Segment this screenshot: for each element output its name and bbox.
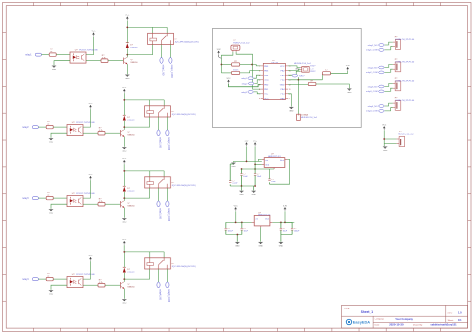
svg-text:PC817-TLP521GB: PC817-TLP521GB <box>79 49 98 51</box>
svg-text:VCC: VCC <box>122 87 127 89</box>
svg-text:Vin: Vin <box>265 160 268 162</box>
svg-text:VCC: VCC <box>89 174 94 176</box>
svg-text:1: 1 <box>259 66 260 68</box>
svg-text:CONN-TH_2P-P5.40: CONN-TH_2P-P5.40 <box>395 61 415 63</box>
svg-text:8: 8 <box>259 98 260 100</box>
svg-text:EasyEDA: EasyEDA <box>353 320 370 325</box>
svg-text:C?: C? <box>232 181 234 183</box>
svg-text:VCC: VCC <box>234 205 239 207</box>
svg-text:1/1: 1/1 <box>458 319 462 322</box>
svg-text:GND: GND <box>231 166 236 168</box>
svg-text:Your Company: Your Company <box>395 318 413 321</box>
svg-text:VCC: VCC <box>264 98 269 100</box>
svg-text:11: 11 <box>289 89 291 91</box>
svg-text:GND: GND <box>122 222 127 224</box>
svg-text:RXD?: RXD? <box>310 71 316 73</box>
svg-text:1k: 1k <box>50 51 52 53</box>
svg-text:C?: C? <box>271 179 273 181</box>
svg-text:GND: GND <box>289 110 294 112</box>
svg-text:SS8050: SS8050 <box>127 134 135 136</box>
svg-text:GND: GND <box>125 78 130 80</box>
svg-text:PC817-TLP521GB: PC817-TLP521GB <box>76 122 95 124</box>
svg-text:CONN-TH_2P-P5.40: CONN-TH_2P-P5.40 <box>395 39 415 41</box>
svg-text:3: 3 <box>259 75 260 77</box>
svg-text:GND: GND <box>252 194 257 196</box>
svg-text:VCC: VCC <box>382 124 387 126</box>
svg-text:4.7k: 4.7k <box>102 57 106 59</box>
svg-text:TXD?: TXD? <box>310 65 316 67</box>
svg-text:GND: GND <box>49 142 54 144</box>
svg-text:VCC: VCC <box>89 255 94 257</box>
svg-text:2020-10-30: 2020-10-30 <box>389 322 404 326</box>
svg-text:9: 9 <box>289 98 290 100</box>
svg-text:HDR-M-2.54_1x4: HDR-M-2.54_1x4 <box>294 63 311 65</box>
svg-text:CONN-TH_2P-P5.40: CONN-TH_2P-P5.40 <box>395 100 415 102</box>
svg-text:1N4148: 1N4148 <box>127 272 135 274</box>
svg-text:VCC: VCC <box>122 239 127 241</box>
svg-text:VCC: VCC <box>227 78 232 80</box>
svg-text:VCC: VCC <box>125 15 130 17</box>
svg-text:1N4148: 1N4148 <box>130 47 138 49</box>
svg-text:GND: GND <box>49 213 54 215</box>
svg-text:1N4148: 1N4148 <box>127 191 135 193</box>
svg-text:C?: C? <box>294 228 296 230</box>
svg-text:VCC: VCC <box>89 103 94 105</box>
svg-text:4.7k: 4.7k <box>99 282 103 284</box>
svg-text:4.7k: 4.7k <box>99 201 103 203</box>
svg-text:Company:: Company: <box>375 319 385 321</box>
svg-text:TITLE:: TITLE: <box>344 308 350 310</box>
svg-text:VCC: VCC <box>280 66 285 68</box>
svg-text:GND: GND <box>122 151 127 153</box>
svg-text:GND: GND <box>295 68 300 70</box>
svg-text:HDR-F-2.54_1x2: HDR-F-2.54_1x2 <box>233 42 250 44</box>
svg-text:C?: C? <box>228 228 230 230</box>
svg-text:SS8050: SS8050 <box>127 205 135 207</box>
svg-text:GND: GND <box>347 92 352 94</box>
svg-text:C?: C? <box>243 174 245 176</box>
svg-text:1k: 1k <box>47 124 49 126</box>
svg-text:100uF: 100uF <box>294 230 300 232</box>
svg-text:HDR-F-2.54_1x2: HDR-F-2.54_1x2 <box>398 134 414 136</box>
svg-text:C?: C? <box>283 228 285 230</box>
svg-text:GND: GND <box>235 245 240 247</box>
svg-text:REV:: REV: <box>448 313 453 315</box>
svg-text:GND: GND <box>239 194 244 196</box>
svg-text:Gnd: Gnd <box>265 164 269 166</box>
svg-text:VCC: VCC <box>122 158 127 160</box>
svg-text:4: 4 <box>259 80 260 82</box>
svg-text:GND: GND <box>122 303 127 305</box>
svg-text:DIP-16: DIP-16 <box>271 62 278 64</box>
svg-text:1N4148: 1N4148 <box>127 120 135 122</box>
svg-text:5: 5 <box>259 84 260 86</box>
svg-text:VCC: VCC <box>253 141 258 143</box>
svg-text:6: 6 <box>259 89 260 91</box>
svg-text:GND: GND <box>280 84 285 86</box>
svg-text:Vin: Vin <box>255 219 258 221</box>
svg-text:HDR-M-2.54_1x4: HDR-M-2.54_1x4 <box>301 117 318 119</box>
svg-text:PC817-TLP521GB: PC817-TLP521GB <box>76 193 95 195</box>
svg-text:SS8050: SS8050 <box>127 286 135 288</box>
svg-text:C?: C? <box>257 174 259 176</box>
svg-text:1k: 1k <box>47 276 49 278</box>
svg-text:1k: 1k <box>47 195 49 197</box>
svg-text:100uF: 100uF <box>228 230 234 232</box>
svg-text:GND: GND <box>258 245 263 247</box>
svg-text:GND: GND <box>264 80 269 82</box>
svg-text:GND: GND <box>383 150 388 152</box>
svg-text:7: 7 <box>259 94 260 96</box>
svg-text:Sheet_1: Sheet_1 <box>361 310 373 314</box>
svg-text:PC817-TLP521GB: PC817-TLP521GB <box>76 274 95 276</box>
svg-text:GND: GND <box>279 245 284 247</box>
svg-text:SS8050: SS8050 <box>130 62 138 64</box>
svg-text:2: 2 <box>259 70 260 72</box>
svg-text:VCC: VCC <box>92 31 97 33</box>
svg-text:GND: GND <box>52 69 57 71</box>
svg-text:TxRx?: TxRx? <box>299 75 306 77</box>
svg-text:CONN-TH_2P-P5.40: CONN-TH_2P-P5.40 <box>395 80 415 82</box>
svg-text:4.7k: 4.7k <box>99 130 103 132</box>
svg-text:GND: GND <box>49 294 54 296</box>
svg-text:C?: C? <box>244 228 246 230</box>
svg-text:100uF: 100uF <box>232 183 238 185</box>
